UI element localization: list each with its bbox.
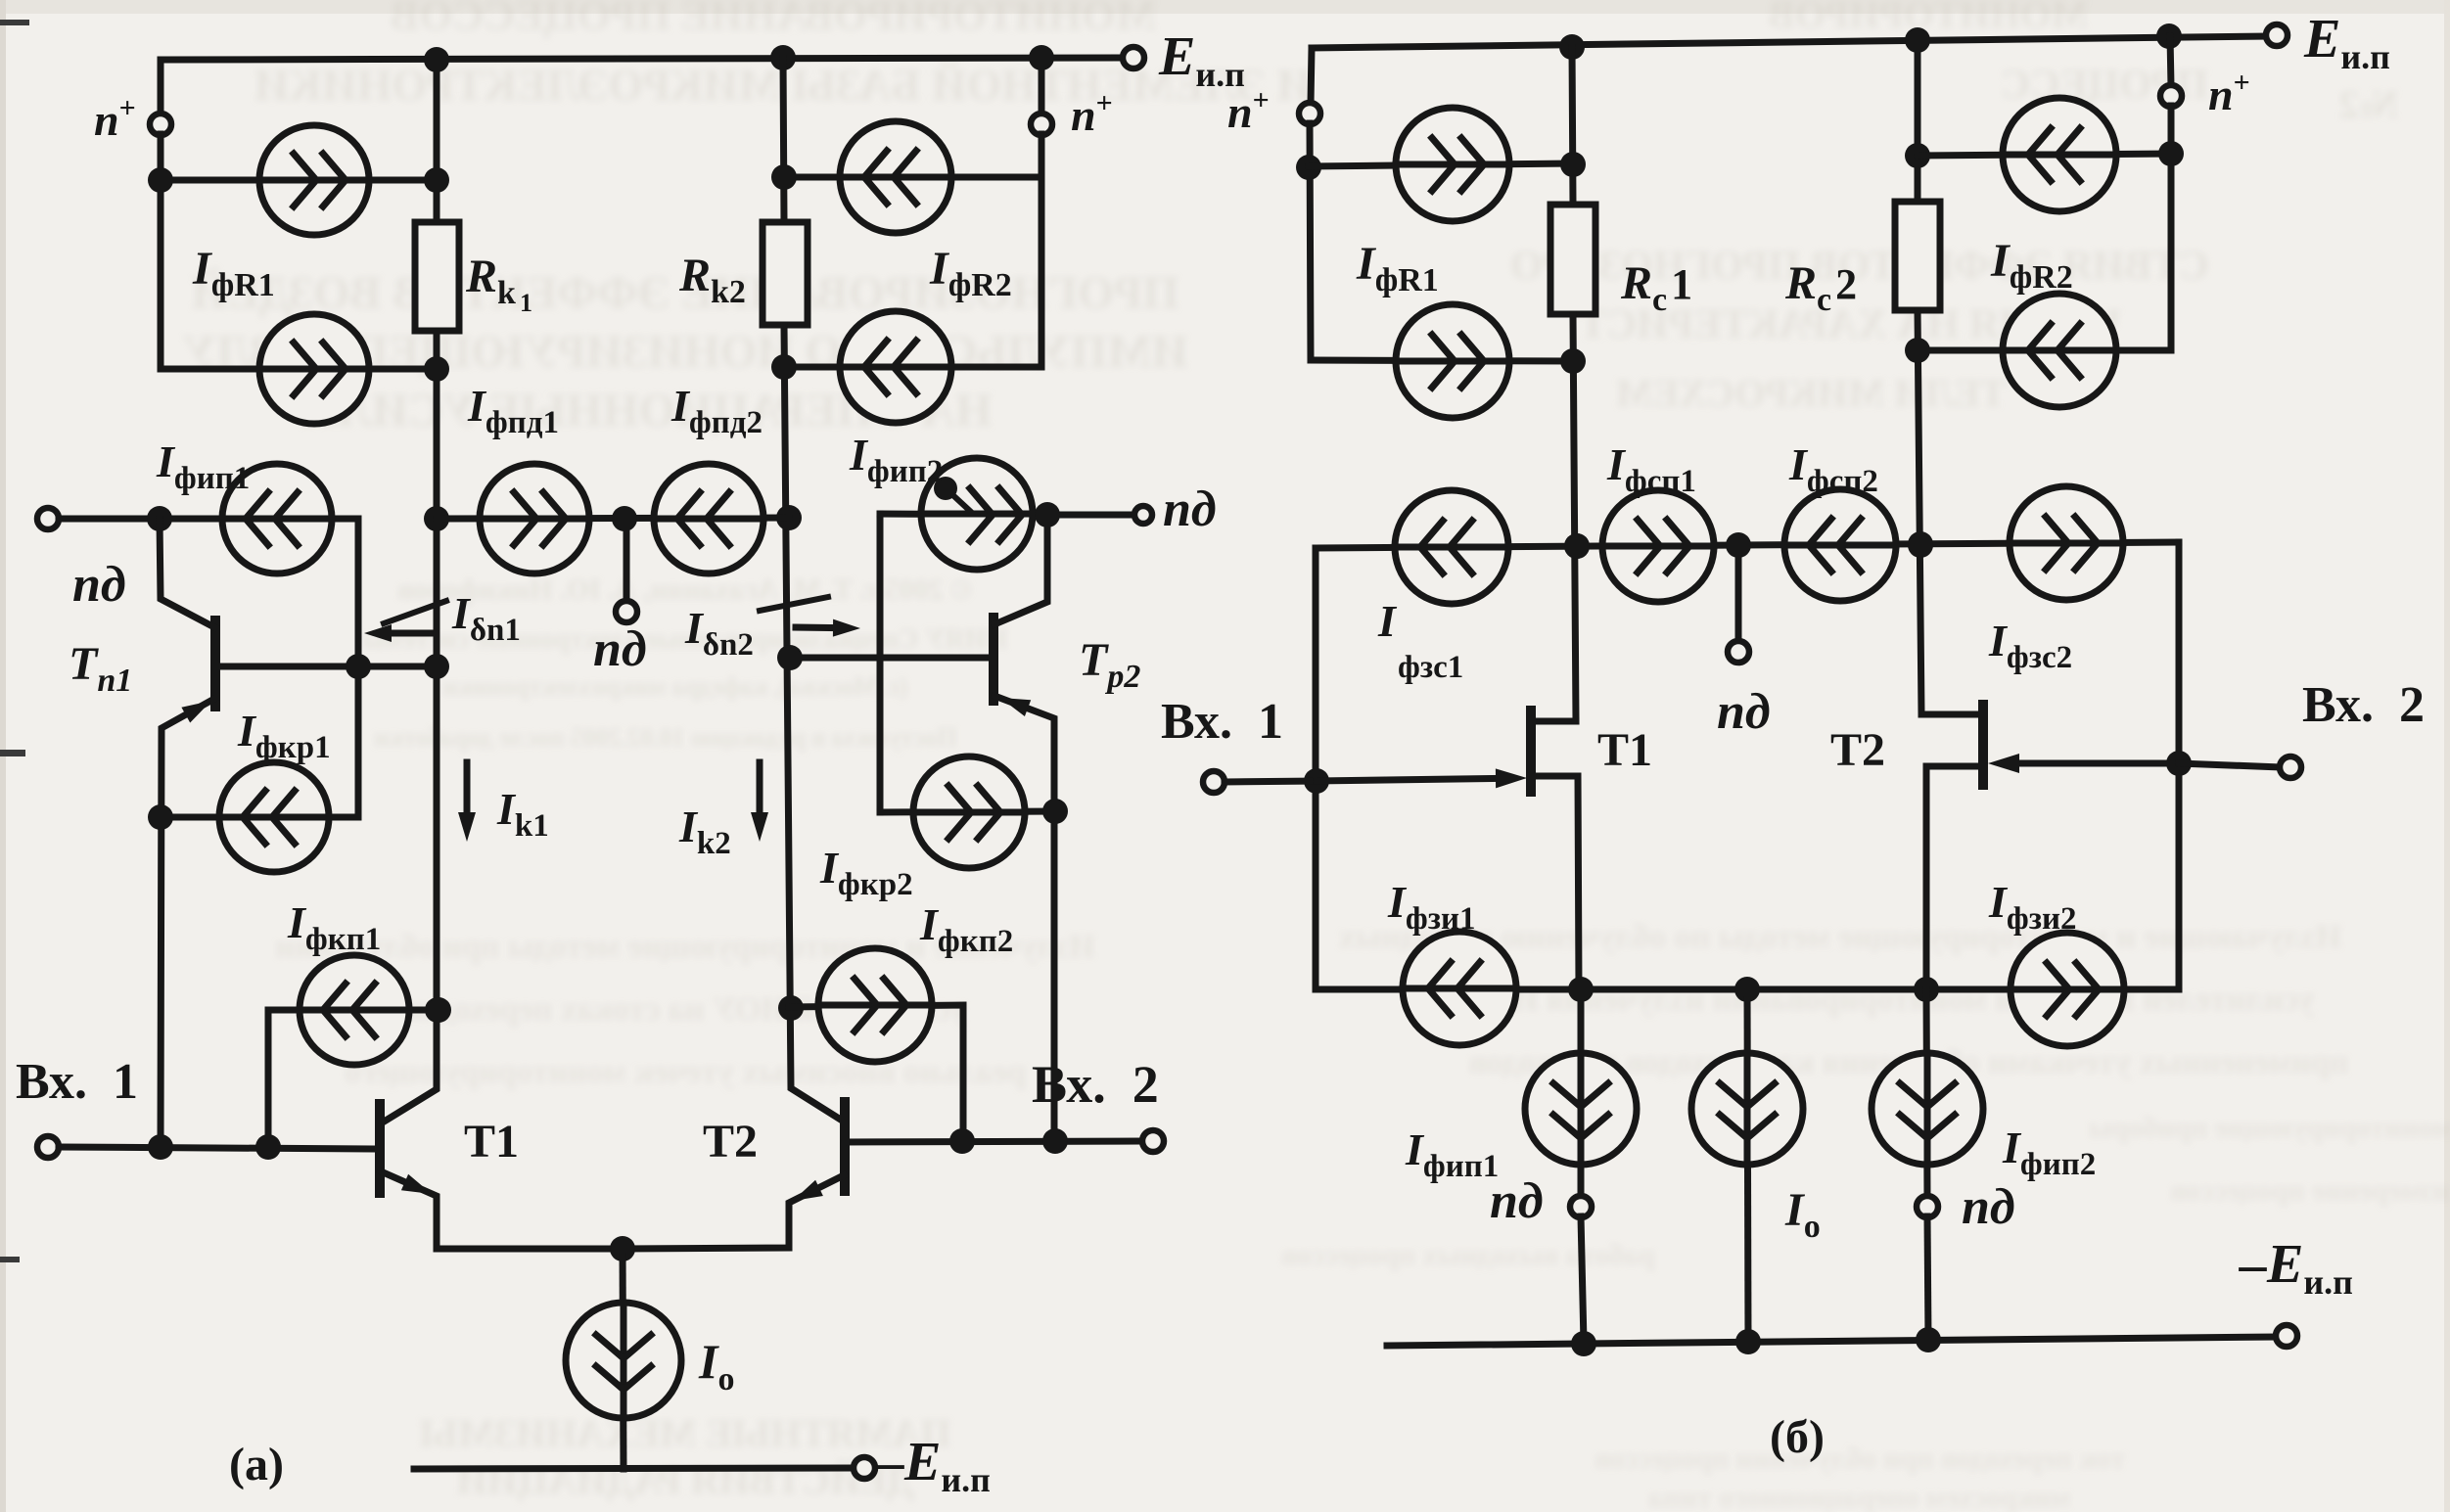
wire: Iδn1 callout line bbox=[384, 601, 446, 623]
wire: Iфип1 column (б) bbox=[1578, 989, 1585, 1197]
svg-text:T2: T2 bbox=[703, 1116, 758, 1168]
node: rail junction at right n+ branch (а) bbox=[1029, 45, 1054, 70]
label IфR1 (а) bbox=[192, 243, 279, 303]
node: left branch junction IфR1 top (а) bbox=[148, 167, 173, 193]
label Iфкп2 (а) bbox=[919, 899, 1017, 959]
wire: Вх.2 lead (б) bbox=[2179, 763, 2281, 767]
current source IфR1 lower (а) bbox=[259, 314, 369, 424]
terminal Вх.2 (а) bbox=[1142, 1130, 1164, 1152]
svg-text:Поступила в редакцию 10.02.200: Поступила в редакцию 10.02.2005 после до… bbox=[374, 723, 956, 752]
svg-text:мониторирующие приборы: мониторирующие приборы bbox=[2089, 1112, 2450, 1144]
label Iфкр1 (а) bbox=[237, 706, 335, 765]
label Io (б) bbox=[1784, 1184, 1825, 1245]
label Iфип1 (б) bbox=[1405, 1124, 1502, 1184]
wire: vertical link Iфип1/base/Iфкр1 (а) bbox=[355, 519, 362, 817]
node: Rk2 column junction IфR2 upper (а) bbox=[771, 164, 797, 190]
node: Iфкр1 left junction (а) bbox=[148, 804, 173, 830]
wire: right vertical gate line (б) bbox=[2176, 542, 2183, 989]
node: Rc2 junction row (б) bbox=[1908, 532, 1933, 558]
wire: Rc2 column lower / drain T2 (б) bbox=[1918, 310, 1982, 714]
wire: left vertical gate line (б) bbox=[1313, 548, 1319, 989]
svg-text:микросхем операционного типа: микросхем операционного типа bbox=[1648, 1482, 2070, 1512]
arrow: Ik1 current arrow bbox=[458, 762, 476, 842]
terminal nд mid (а) bbox=[616, 601, 637, 622]
node: row junction source T1 (б) bbox=[1568, 977, 1594, 1002]
label nд bottom-right (б) bbox=[1962, 1179, 2015, 1235]
svg-text:nд: nд bbox=[72, 557, 126, 613]
label nд mid (а) bbox=[593, 621, 647, 677]
current source IфR2 lower (б) bbox=[2003, 294, 2116, 407]
label (а) bbox=[229, 1439, 284, 1490]
wire: Rc1 column upper (б) bbox=[1572, 47, 1573, 205]
label Вх. 2 (а) bbox=[1032, 1055, 1159, 1114]
node: rail junction Rc2 (б) bbox=[1905, 27, 1930, 53]
transistor Tn1 base bar bbox=[210, 620, 220, 707]
terminal n+ left (а) bbox=[150, 114, 171, 135]
svg-text:Вх. 1: Вх. 1 bbox=[1161, 694, 1283, 750]
terminal nд right (а) bbox=[1134, 506, 1152, 524]
label IфR2 (б) bbox=[1990, 235, 2077, 296]
wire: right branch below n+ terminal (а) bbox=[1039, 134, 1045, 367]
label -E_и.п (б) bbox=[2239, 1234, 2357, 1302]
label Iфсп2 (б) bbox=[1788, 439, 1882, 499]
wire: row of IфR1 upper source (а) bbox=[161, 177, 437, 184]
wire: bottom rail -E_и.п (а) bbox=[414, 1468, 854, 1469]
wire: T1 drain tap (б) bbox=[1531, 718, 1576, 725]
resistor Rc2 bbox=[1895, 202, 1940, 310]
svg-text:Вх. 1: Вх. 1 bbox=[16, 1054, 138, 1110]
node: Rk2 column junction Iфпд2 (а) bbox=[776, 505, 802, 530]
wire: row of IфR2 lower source (а) bbox=[784, 364, 1041, 371]
wire: Io column (б) bbox=[1747, 989, 1748, 1342]
current source Iфпд2 (а) bbox=[654, 464, 763, 573]
terminal nд bottom-left (б) bbox=[1570, 1196, 1592, 1217]
terminal Вх.2 (б) bbox=[2280, 756, 2301, 778]
svg-text:nд: nд bbox=[1163, 481, 1217, 537]
label nд row (б) bbox=[1717, 684, 1771, 740]
svg-text:ток переходов при облучении пр: ток переходов при облучении процессов bbox=[1595, 1443, 2125, 1475]
svg-text:nд: nд bbox=[1962, 1179, 2015, 1235]
svg-text:МОНИТОРИРОВ: МОНИТОРИРОВ bbox=[1769, 0, 2088, 36]
wire: T2 base lead Вх.2 (а) bbox=[845, 1141, 1142, 1142]
wire: nд lead-in left (а) bbox=[59, 516, 160, 523]
node: Iфкп1 right junction (а) bbox=[426, 997, 451, 1023]
label -E_и.п (а) bbox=[876, 1432, 994, 1499]
label Iфип2 (б) bbox=[2002, 1123, 2100, 1182]
current source Iфип1 (б) bbox=[1525, 1053, 1637, 1165]
current source Iфкр2 (а) bbox=[913, 756, 1025, 868]
arrow: T2 emitter arrow (а) bbox=[793, 1180, 823, 1201]
terminal -E_и.п (а) bbox=[854, 1457, 875, 1479]
wire: top supply rail E_и.п (б) bbox=[1312, 36, 2267, 48]
wire: Вх.1 lead (а) bbox=[59, 1147, 380, 1149]
label n+ left (б) bbox=[1227, 84, 1273, 137]
label Iфпд1 (а) bbox=[467, 381, 563, 440]
wire: Rc2 column upper (б) bbox=[1915, 40, 1921, 202]
node: bottom rail junction Iфип2 (б) bbox=[1916, 1327, 1941, 1352]
node: Вх.2 junction emitter line Tp2 (а) bbox=[1042, 1128, 1068, 1154]
node: tail junction (а) bbox=[610, 1236, 635, 1261]
wire: Iфип2 column below nд (б) bbox=[1927, 1216, 1928, 1340]
wire: Вх.1 lead (б) bbox=[1225, 781, 1317, 782]
label nд right (а) bbox=[1163, 481, 1217, 537]
svg-text:nд: nд bbox=[1717, 684, 1771, 740]
arrow: Tn1 emitter arrow bbox=[181, 701, 211, 723]
label IфR1 (б) bbox=[1356, 238, 1443, 298]
wire: top supply rail E_и.п of diagram (а) bbox=[161, 58, 1123, 60]
terminal nд bottom-right (б) bbox=[1917, 1196, 1938, 1217]
node: Iфип2 right junction (а) bbox=[1035, 502, 1060, 527]
label (б) bbox=[1770, 1411, 1825, 1463]
terminal n+ left (б) bbox=[1299, 103, 1320, 124]
node: rail junction Rc1 (б) bbox=[1559, 34, 1585, 60]
current source Iфзс2 (б) bbox=[2010, 486, 2123, 600]
svg-text:измерение процессов: измерение процессов bbox=[2170, 1174, 2449, 1207]
terminal -E_и.п (б) bbox=[2276, 1325, 2297, 1347]
current source Iфкп1 (а) bbox=[300, 955, 409, 1065]
scan edge tick lower-left bbox=[0, 1257, 20, 1262]
node: row junction source T2 (б) bbox=[1914, 977, 1939, 1002]
current source IфR2 upper (а) bbox=[840, 121, 951, 233]
svg-text:СТВИЯ ЭФФЕКТОВ ПРОГНОЗИРО: СТВИЯ ЭФФЕКТОВ ПРОГНОЗИРО bbox=[1510, 244, 2209, 289]
wire: middle sources row (б) bbox=[1316, 542, 2179, 548]
label Rk2 bbox=[678, 250, 750, 310]
terminal Вх.1 (а) bbox=[37, 1136, 59, 1158]
arrow: Ik2 current arrow bbox=[751, 762, 768, 842]
label Iфип1 (а) bbox=[156, 436, 254, 496]
label Iфзи1 (б) bbox=[1387, 877, 1480, 937]
arrow: T1 emitter arrow (а) bbox=[401, 1174, 432, 1194]
terminal nд row (б) bbox=[1728, 641, 1749, 663]
wire: right branch rail to n+ terminal (а) bbox=[1039, 58, 1045, 115]
transistor T1 base bar (а) bbox=[375, 1104, 385, 1193]
wire: T2 drain tap (б) bbox=[1921, 711, 1983, 718]
label Tn1 bbox=[69, 638, 136, 699]
current source IфR1 upper (а) bbox=[259, 125, 369, 235]
node: Iфпд mid junction (а) bbox=[612, 506, 637, 531]
label Io (а) bbox=[698, 1334, 738, 1397]
label Tp2 bbox=[1079, 634, 1144, 695]
svg-text:Вх. 2: Вх. 2 bbox=[2302, 677, 2425, 733]
svg-text:(а): (а) bbox=[229, 1439, 284, 1490]
current source Iфзи1 (б) bbox=[1403, 932, 1516, 1045]
label Iфкр2 (а) bbox=[819, 843, 917, 902]
label T2 (б) bbox=[1830, 724, 1885, 776]
node: nд junction left (а) bbox=[147, 506, 172, 531]
wire: IфR2 lower row (б) bbox=[1918, 347, 2171, 354]
label T1 (а) bbox=[464, 1116, 519, 1168]
node: row junction Rc2 (б) bbox=[1908, 531, 1933, 557]
terminal nд left (а) bbox=[37, 508, 59, 529]
current source Iфсп1 (б) bbox=[1602, 490, 1714, 602]
wire: Tn1 emitter lead (а) bbox=[161, 699, 214, 1147]
current source Iфзс1 (б) bbox=[1395, 490, 1508, 604]
terminal Вх.1 (б) bbox=[1203, 771, 1225, 793]
current source Iфип2 (а) bbox=[921, 458, 1033, 570]
wire: IфR1 lower row (б) bbox=[1311, 360, 1573, 361]
label T2 (а) bbox=[703, 1116, 758, 1168]
label Iфсп1 (б) bbox=[1606, 439, 1700, 499]
wire: nд stub mid (а) bbox=[624, 519, 630, 602]
transistor Tp2 base bar bbox=[989, 618, 998, 701]
wire: Tn1 collector lead (а) bbox=[160, 519, 214, 627]
current source Iфзи2 (б) bbox=[2011, 933, 2124, 1046]
label Iδn1 (а) bbox=[451, 588, 525, 648]
svg-text:nд: nд bbox=[593, 621, 647, 677]
node: Rc1 junction IфR1 top (б) bbox=[1560, 152, 1586, 177]
label Iфзи2 (б) bbox=[1988, 877, 2081, 937]
arrow: T1 gate arrow (б) bbox=[1317, 768, 1527, 788]
label Вх. 1 (а) bbox=[16, 1054, 138, 1110]
current source Iфкп2 (а) bbox=[818, 948, 932, 1062]
node: row junction nд stub (б) bbox=[1726, 532, 1751, 558]
wire: row of IфR1 lower source (а) bbox=[161, 366, 437, 373]
label Rc2 bbox=[1784, 257, 1857, 318]
node: Rc1 junction row (б) bbox=[1564, 533, 1590, 559]
terminal E_и.п (а) bbox=[1123, 47, 1144, 69]
svg-text:T1: T1 bbox=[1597, 724, 1652, 776]
wire: Iфип2 row (а) bbox=[880, 514, 1047, 515]
resistor Rk2 bbox=[763, 222, 808, 325]
label nд bottom-left (б) bbox=[1490, 1173, 1544, 1229]
svg-text:© 2005 г. Т. М. Агаханян, А. Ю: © 2005 г. Т. М. Агаханян, А. Ю. Никифоро… bbox=[397, 573, 972, 606]
label Iфкп1 (а) bbox=[287, 897, 385, 957]
svg-text:реально вносимых утечек монито: реально вносимых утечек мониторирующего bbox=[345, 1054, 1026, 1090]
label Iфип2 (а) bbox=[849, 430, 947, 489]
node: Rk1 column junction Iфпд1 (а) bbox=[424, 506, 449, 531]
svg-text:Вх. 2: Вх. 2 bbox=[1032, 1055, 1159, 1114]
node: rail junction at Rk1 column (а) bbox=[424, 47, 449, 72]
svg-text:фзс1: фзс1 bbox=[1398, 650, 1463, 685]
wire: bottom rail -E_и.п (б) bbox=[1387, 1337, 2276, 1346]
current source Iфпд1 (а) bbox=[480, 464, 589, 573]
current source IфR1 lower (б) bbox=[1396, 304, 1509, 418]
node: Tn1 base junction mid (а) bbox=[346, 654, 371, 679]
scan edge tick mid-left bbox=[0, 750, 25, 756]
node: Вх.2 junction Iфкп2 drop (а) bbox=[949, 1128, 975, 1154]
label Iфзс2 (б) bbox=[1988, 616, 2076, 675]
wire: Rk2 column upper segment (а) bbox=[783, 58, 784, 222]
wire: Rk1 column upper segment (а) bbox=[434, 60, 440, 222]
svg-text:T1: T1 bbox=[464, 1116, 519, 1168]
wire: T1 source tap (б) bbox=[1531, 776, 1579, 989]
current source Iфкр1 (а) bbox=[219, 762, 329, 872]
wire: tail vertical to Io (а) bbox=[623, 1249, 624, 1469]
svg-text:работа выходных процессов: работа выходных процессов bbox=[1281, 1239, 1655, 1271]
node: Rc2 junction IфR2 top (б) bbox=[1905, 143, 1930, 168]
wire: T2 source tap (б) bbox=[1926, 766, 1983, 989]
wire: right branch rail to n+ (б) bbox=[2170, 36, 2171, 86]
wire: left branch below n+ (б) bbox=[1310, 123, 1311, 360]
wire: Tn1 base lead (а) bbox=[215, 664, 437, 670]
wire: left branch from rail to n+ terminal (а) bbox=[158, 60, 164, 115]
svg-text:МОНИТОРИРОВАНИЕ ПРОЦЕССОВ: МОНИТОРИРОВАНИЕ ПРОЦЕССОВ bbox=[391, 0, 1156, 39]
label Rk1 bbox=[465, 251, 536, 317]
node: row junction Io (б) bbox=[1734, 977, 1760, 1002]
current source IфR2 upper (б) bbox=[2003, 98, 2116, 211]
label Iфпд2 (а) bbox=[670, 381, 766, 440]
svg-text:ТЕЛИ МИКРОСХЕМ: ТЕЛИ МИКРОСХЕМ bbox=[1616, 371, 2007, 415]
label IфR2 (а) bbox=[929, 243, 1016, 303]
label nд left (а) bbox=[72, 557, 126, 613]
node: Rk1 column junction base Tn1 (а) bbox=[424, 654, 449, 679]
label Вх. 1 (б) bbox=[1161, 694, 1283, 750]
wire: Iфпд row (а) bbox=[437, 518, 789, 519]
current source IфR1 upper (б) bbox=[1396, 108, 1509, 221]
node: IфR1 lower right junction (а) bbox=[424, 356, 449, 382]
node: Вх.1 junction Iфкп1 (а) bbox=[255, 1134, 281, 1160]
node: decorative dot on Iфип2 (а) bbox=[934, 477, 971, 512]
label n+ right (б) bbox=[2208, 67, 2254, 119]
wire: nд stub (б) bbox=[1735, 545, 1742, 642]
label n+ left (а) bbox=[94, 92, 140, 145]
wire: row of IфR2 upper source (а) bbox=[784, 174, 1041, 181]
wire: Iфкр2 row (а) bbox=[880, 811, 1055, 812]
wire: T2 emitter lead (а) bbox=[623, 1175, 844, 1249]
current source Io (б) bbox=[1691, 1053, 1803, 1165]
label E_и.п (б) bbox=[2303, 9, 2394, 76]
scan edge tick top-left bbox=[0, 20, 29, 25]
current source Iфип2 (б) bbox=[1872, 1053, 1983, 1165]
arrow: Iδn2 arrow bbox=[796, 619, 860, 637]
wire: IфR2 upper row (б) bbox=[1918, 154, 2171, 156]
node: row junction Rc1 (б) bbox=[1564, 533, 1590, 559]
node: right branch junction IфR2 top (б) bbox=[2158, 141, 2184, 166]
node: Вх.1 junction emitter line (а) bbox=[148, 1134, 173, 1160]
wire: T1 emitter lead (а) bbox=[381, 1171, 623, 1249]
svg-text:T2: T2 bbox=[1830, 724, 1885, 776]
label Вх. 2 (б) bbox=[2302, 677, 2425, 733]
current source Iфип1 (а) bbox=[222, 464, 332, 573]
node: Rk2 column junction base Tp2 (а) bbox=[777, 645, 803, 670]
wire: Tp2 collector lead (а) bbox=[994, 515, 1047, 624]
arrow: Tp2 emitter arrow bbox=[1000, 698, 1031, 716]
resistor Rk1 bbox=[415, 222, 459, 331]
node: Rc1 junction IфR1 bottom (б) bbox=[1560, 348, 1586, 374]
current source Io (а) bbox=[566, 1303, 681, 1418]
node: Rk2 column junction IфR2 lower (а) bbox=[771, 354, 797, 380]
wire: Iфкп1 row and drop (а) bbox=[268, 1010, 439, 1147]
current source Iфсп2 (б) bbox=[1784, 489, 1896, 601]
wire: Iфип2 left link down to Iфкр2 (а) bbox=[877, 514, 884, 812]
terminal n+ right (б) bbox=[2160, 85, 2182, 107]
node: Iфкр2 right junction (а) bbox=[1042, 799, 1068, 824]
wire: right branch below n+ (б) bbox=[2168, 106, 2175, 350]
arrow: T2 gate arrow (б) bbox=[1988, 754, 2179, 773]
label Iδn2 (а) bbox=[684, 603, 758, 663]
wire: left branch to n+ terminal (б) bbox=[1311, 48, 1312, 104]
label T1 (б) bbox=[1597, 724, 1652, 776]
node: Rc2 junction IфR2 bottom (б) bbox=[1905, 338, 1930, 363]
wire: Tp2 base lead (а) bbox=[790, 655, 994, 662]
svg-text:(г. Москва), кафедра микроэлек: (г. Москва), кафедра микроэлектроники bbox=[443, 672, 908, 701]
node: left branch junction IфR1 top (б) bbox=[1296, 155, 1321, 180]
transistor T2 base bar (а) bbox=[840, 1102, 850, 1191]
node: bottom rail junction Iфип1 (б) bbox=[1571, 1331, 1596, 1356]
transistor T1 gate bar (б) bbox=[1526, 710, 1536, 792]
wire: Iδn2 callout line bbox=[760, 597, 828, 611]
label E_и.п (а) bbox=[1158, 26, 1249, 94]
label Iфзс1 (б) bbox=[1377, 596, 1463, 685]
current source IфR2 lower (а) bbox=[840, 311, 951, 423]
wire: IфR1 upper row (б) bbox=[1309, 163, 1573, 166]
wire: Rk2 column lower segment / collector line T2 (а) bbox=[784, 325, 844, 1122]
label Ik2 bbox=[678, 802, 735, 861]
node: Rk2 column junction Iфкп2 (а) bbox=[778, 995, 804, 1021]
wire: Iфип1 column below nд (б) bbox=[1581, 1216, 1584, 1343]
svg-text:№2: №2 bbox=[2339, 82, 2398, 126]
wire: Iфкп2 row and drop (а) bbox=[789, 1005, 963, 1141]
node: gate junction Вх.2 (б) bbox=[2166, 751, 2192, 776]
wire: Rk1 column lower segment / collector line T1 (а) bbox=[381, 331, 437, 1123]
wire: left branch below n+ terminal (а) bbox=[158, 134, 164, 369]
svg-text:(б): (б) bbox=[1770, 1411, 1825, 1463]
svg-text:nд: nд bbox=[1490, 1173, 1544, 1229]
node: IфR1 upper right junction (а) bbox=[424, 167, 449, 193]
node: rail junction right n+ (б) bbox=[2156, 23, 2182, 49]
svg-text:I: I bbox=[1377, 596, 1398, 646]
wire: Tp2 emitter lead (а) bbox=[994, 696, 1054, 1141]
wire: Iфкр1 row (а) bbox=[161, 814, 358, 821]
terminal E_и.п (б) bbox=[2266, 24, 2288, 46]
resistor Rc1 bbox=[1550, 205, 1595, 314]
wire: Iфип1 row (а) bbox=[160, 516, 358, 523]
transistor T2 gate bar (б) bbox=[1978, 705, 1988, 785]
terminal n+ right (а) bbox=[1031, 114, 1052, 135]
wire: Iфип2 column (б) bbox=[1926, 989, 1927, 1197]
node: Rk1 column junction Iфкп1 (а) bbox=[425, 997, 450, 1023]
node: bottom rail junction Io (б) bbox=[1735, 1329, 1761, 1354]
node: rail junction at Rk2 column (а) bbox=[770, 45, 796, 70]
label n+ right (а) bbox=[1071, 87, 1117, 140]
arrow: Iδn1 arrow bbox=[364, 624, 432, 642]
label Rc1 bbox=[1620, 257, 1692, 318]
wire: Rc1 column lower / drain T1 (б) bbox=[1532, 314, 1576, 721]
wire: bottom sources row (б) bbox=[1316, 986, 2179, 993]
node: gate junction (б) bbox=[1304, 768, 1329, 794]
svg-text:ПАМЯТНЫЕ МЕХАНИЗМЫ: ПАМЯТНЫЕ МЕХАНИЗМЫ bbox=[420, 1411, 951, 1455]
wire: nд lead right (а) bbox=[1047, 512, 1130, 519]
label Ik1 bbox=[496, 784, 553, 844]
